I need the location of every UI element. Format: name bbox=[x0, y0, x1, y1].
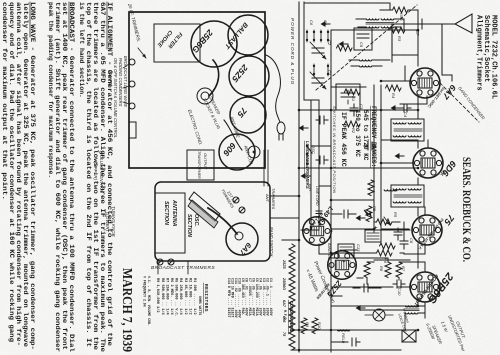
coupling coil bbox=[384, 189, 397, 192]
tube 6A7 socket bbox=[410, 68, 440, 98]
ground at 75 stage bbox=[356, 215, 366, 221]
wire gang leads bbox=[270, 196, 299, 240]
padding condenser callout block bbox=[108, 56, 128, 138]
resistor R3 bbox=[389, 27, 418, 42]
resistor R7b bbox=[380, 243, 396, 249]
resistor R8 bbox=[379, 262, 391, 278]
wire AVC rails bbox=[374, 85, 381, 232]
filter choke box bbox=[154, 24, 200, 62]
ground on mid rail bbox=[321, 21, 331, 27]
antenna section box bbox=[155, 193, 185, 253]
ground at switch ladder right bbox=[301, 173, 311, 179]
IF trimmers callout bbox=[127, 2, 146, 58]
gang assembly box bbox=[155, 182, 270, 261]
chassis tube 75 bbox=[230, 97, 266, 133]
band switch contacts bbox=[306, 20, 329, 76]
junction dots bbox=[298, 29, 420, 352]
tube 25B6G socket bbox=[410, 272, 440, 302]
volume control R5 bbox=[377, 212, 399, 225]
trimmer screw B bbox=[239, 207, 245, 213]
gang rotor plates bbox=[188, 192, 220, 228]
model title text bbox=[475, 15, 498, 99]
wire vertical feeders bbox=[291, 30, 418, 350]
pilot lamp bbox=[365, 309, 393, 321]
electrolytic condenser block C13 C14 bbox=[338, 226, 381, 268]
antenna coil L1 bbox=[349, 60, 390, 67]
resistor R6b bbox=[364, 262, 370, 278]
label 75 bbox=[417, 213, 456, 251]
chassis outline bbox=[129, 12, 265, 168]
resistor R9 bbox=[301, 318, 310, 334]
tuning knob callout bbox=[93, 152, 116, 237]
wire 25Z5 feeders bbox=[331, 250, 381, 296]
wire switch ladder bbox=[299, 2, 331, 230]
ground at osc coil bbox=[339, 41, 349, 47]
resistor R4 bbox=[386, 85, 402, 99]
mounting bracket on chassis edge bbox=[129, 122, 136, 138]
chassis tube BALLAST bbox=[223, 15, 268, 55]
output transformer box bbox=[187, 150, 214, 180]
IF can on chassis bbox=[248, 146, 260, 158]
ground at 6A7 cathode bbox=[391, 105, 401, 111]
label 6A7 bbox=[427, 83, 459, 109]
tube 6D6 socket bbox=[413, 148, 443, 178]
chassis tube 6D6 bbox=[219, 134, 255, 170]
on-off switch bbox=[306, 145, 312, 168]
resistors table bbox=[143, 276, 210, 326]
resistor R7 bbox=[396, 262, 406, 278]
broadcast trimmer screws bbox=[157, 259, 174, 265]
capacitor C3 bbox=[350, 104, 364, 116]
resistor R6 bbox=[377, 250, 393, 264]
capacitor C7 bbox=[415, 19, 422, 36]
resistor R4b bbox=[368, 180, 374, 196]
ground at switch ladder left bbox=[299, 125, 309, 131]
field coil bbox=[331, 330, 360, 344]
speaker bbox=[397, 306, 418, 342]
wires 25B6G stage bbox=[331, 258, 425, 306]
tuning capacitor C2 (osc) with arrow bbox=[310, 40, 332, 59]
chassis tube 25B6G bbox=[190, 21, 237, 67]
ant trimmers label bbox=[265, 188, 276, 210]
capacitor C11 bbox=[356, 284, 372, 292]
frequency ranges note bbox=[354, 106, 377, 168]
capacitor C17 bbox=[338, 210, 352, 218]
ant wire bbox=[224, 115, 242, 150]
1st IF trimmers bbox=[220, 188, 245, 213]
wires 75 stage bbox=[331, 207, 425, 254]
output data note bbox=[425, 315, 466, 353]
padder capacitor C9b bbox=[336, 84, 360, 110]
heater string resistor bbox=[282, 244, 295, 350]
wire left edge top bbox=[417, 10, 419, 30]
tube 25Z5 socket (schematic) bbox=[328, 251, 357, 280]
IF transformer T1 bbox=[391, 119, 424, 141]
resistor R1 bbox=[345, 89, 361, 101]
resistor R10 bbox=[312, 318, 322, 334]
control shafts on chassis edge bbox=[123, 59, 135, 109]
capacitor C8 bbox=[400, 237, 414, 249]
trimmer screw A bbox=[233, 197, 239, 203]
volume control potentiometer bbox=[364, 206, 377, 222]
chassis tube 25Z5 bbox=[229, 56, 269, 96]
IF transformer T2 bbox=[391, 185, 424, 207]
wire B+ top rail bbox=[417, 30, 419, 306]
oscillator coil L2 bbox=[356, 19, 404, 30]
tuning capacitor C1 (ant) with arrow bbox=[310, 70, 332, 89]
osc section label bbox=[186, 214, 199, 237]
leader ticks to gang bbox=[158, 261, 188, 274]
capacitor C4 bbox=[400, 104, 411, 118]
label 6D6 bbox=[439, 159, 459, 179]
apron link bbox=[264, 150, 268, 186]
ground at pilot lamp bbox=[356, 305, 366, 311]
padder box C9 bbox=[354, 28, 372, 50]
power note bbox=[304, 260, 336, 304]
capacitor C12 bbox=[316, 116, 328, 124]
wires 6A7/6D6 grid cathode bbox=[381, 66, 428, 163]
ballast socket L49BJ bbox=[303, 217, 332, 246]
resistor R2 bbox=[345, 121, 361, 134]
wire mid rail bbox=[330, 30, 332, 352]
speaker socket and plug bbox=[197, 60, 222, 130]
ground near IF bbox=[395, 153, 405, 159]
chassis tube 6A7 (top view) bbox=[208, 208, 258, 258]
wire ballast feeders bbox=[319, 214, 356, 254]
capacitor C8b bbox=[394, 228, 402, 240]
gang condenser dashed link bbox=[316, 5, 486, 122]
label 25Z5 bbox=[315, 278, 344, 300]
label 25B6G bbox=[412, 269, 455, 307]
wire 6A7 top cap bbox=[442, 75, 452, 81]
capacitor C10 bbox=[393, 280, 405, 296]
resistor R1a bbox=[337, 45, 353, 51]
tube 75 socket bbox=[412, 215, 442, 245]
label ballast bbox=[308, 205, 334, 230]
antenna bbox=[392, 14, 472, 75]
capacitor C16 bbox=[331, 338, 360, 346]
capacitor C9c bbox=[364, 142, 376, 150]
capacitor near ballast bbox=[316, 208, 322, 217]
condensers table bbox=[227, 278, 294, 334]
power cord and plug bbox=[266, 18, 295, 140]
wire left border bbox=[304, 3, 390, 10]
wire long B- rail bbox=[298, 2, 300, 352]
output transformer bbox=[404, 302, 425, 318]
resistor R3b with value bbox=[380, 7, 418, 21]
capacitor C15 bbox=[316, 156, 328, 164]
